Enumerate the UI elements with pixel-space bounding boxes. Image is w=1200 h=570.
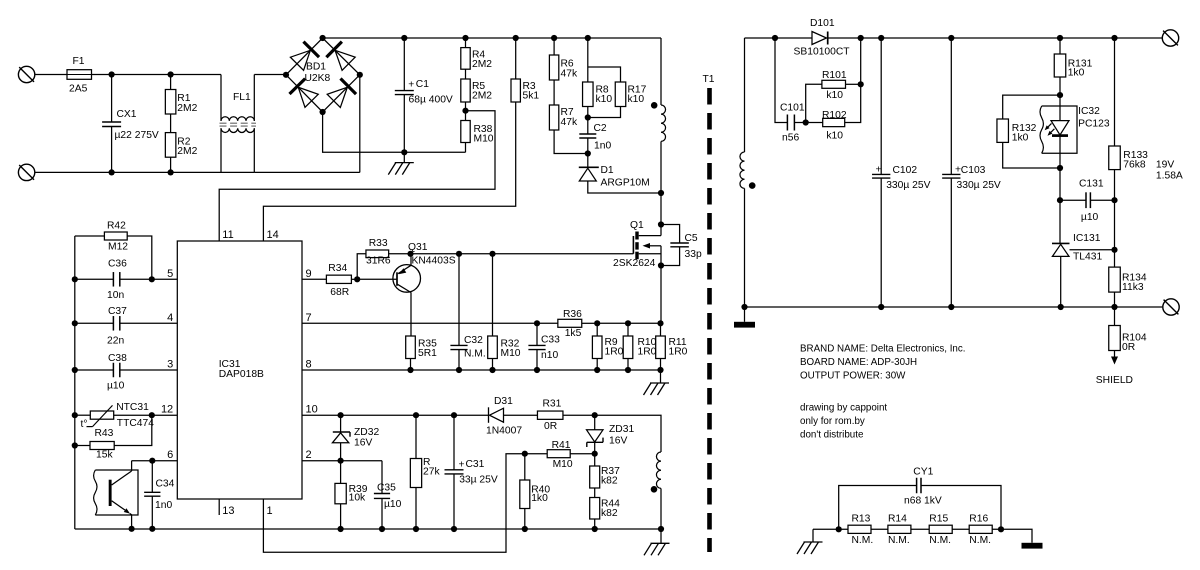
wire (35, 74, 67, 76)
transformer T1 core (707, 88, 712, 552)
svg-text:k10: k10 (596, 94, 613, 105)
svg-text:M10: M10 (553, 459, 573, 470)
gate drive wire (411, 253, 634, 255)
wire (112, 171, 171, 173)
bridge rectifier BD1 U2K8 frame (286, 38, 360, 112)
node R1 top (168, 71, 174, 77)
svg-text:5R1: 5R1 (418, 348, 437, 359)
svg-text:13: 13 (222, 505, 234, 517)
wire (952, 528, 969, 530)
svg-text:2M2: 2M2 (472, 91, 492, 102)
svg-text:1k5: 1k5 (565, 328, 582, 339)
svg-text:47k: 47k (561, 117, 578, 128)
svg-text:D101: D101 (810, 18, 835, 29)
svg-text:N.M.: N.M. (852, 535, 874, 546)
resistor R17 k10 (588, 67, 647, 118)
output terminal + (1162, 30, 1178, 46)
svg-text:7: 7 (306, 312, 312, 324)
svg-text:76k8: 76k8 (1123, 160, 1146, 171)
node C102 bottom (878, 304, 884, 310)
resistor R34 68R (326, 263, 357, 298)
node C31 bottom (451, 526, 457, 532)
svg-text:1k0: 1k0 (1068, 68, 1085, 79)
svg-text:C2: C2 (594, 123, 607, 134)
wire bias top (595, 415, 661, 452)
capacitor C101 n56 (780, 103, 806, 144)
BD1 diode (right-top) (326, 42, 355, 71)
svg-text:C36: C36 (108, 259, 127, 270)
capacitor C103 330u 25V (942, 38, 1001, 307)
resistor R13 N.M. (848, 514, 873, 547)
svg-text:1k0: 1k0 (531, 493, 548, 504)
node Q1 source (658, 262, 664, 268)
node C2/D1 (585, 150, 591, 156)
svg-text:R43: R43 (95, 428, 114, 439)
resistor R3 5k1 (511, 38, 539, 102)
svg-text:16V: 16V (354, 438, 372, 449)
svg-text:ZD31: ZD31 (609, 424, 634, 435)
svg-text:µ10: µ10 (107, 381, 125, 392)
svg-text:27k: 27k (423, 467, 440, 478)
common-mode choke FL1 label (233, 92, 251, 103)
output rating label (1156, 160, 1183, 182)
zener ZD32 16V (332, 415, 379, 461)
node R34/R33 junction (354, 276, 360, 282)
svg-text:6: 6 (167, 449, 173, 461)
svg-text:C37: C37 (108, 306, 127, 317)
IC32 LED (1045, 95, 1069, 168)
node R32 bottom (489, 367, 495, 373)
optocoupler IC32 phototransistor box (94, 470, 138, 515)
wire pin 7 cont (597, 322, 660, 324)
node Q1 drain (658, 221, 664, 227)
resistor R16 N.M. (969, 514, 992, 547)
node CX1 top (109, 71, 115, 77)
node REF/R134 (1111, 247, 1117, 253)
resistor R42 M12 (75, 221, 152, 280)
svg-text:drawing by cappoint: drawing by cappoint (800, 403, 887, 414)
FL1 bottom winding (221, 128, 254, 172)
svg-text:n56: n56 (782, 133, 799, 144)
svg-text:R14: R14 (888, 514, 907, 525)
svg-text:TTC474: TTC474 (117, 418, 154, 429)
svg-text:C131: C131 (1079, 179, 1104, 190)
wire (992, 529, 1032, 543)
node R8/C2 (585, 114, 591, 120)
SHIELD label (1096, 375, 1133, 386)
svg-text:k82: k82 (601, 476, 618, 487)
resistor R8 k10 (583, 38, 613, 118)
svg-text:1n0: 1n0 (155, 500, 172, 511)
svg-text:R31: R31 (543, 399, 562, 410)
node D101 cathode bus (858, 35, 864, 41)
resistor R32 M10 (488, 254, 521, 370)
node C131 right (1111, 197, 1117, 203)
IC32 phototransistor (109, 461, 132, 529)
node R5/R38 (462, 108, 468, 114)
svg-text:R102: R102 (822, 110, 847, 121)
node bias/rail (658, 526, 664, 532)
wire to pin 11 (219, 111, 495, 241)
node R101 right (858, 81, 864, 87)
diode D101 SB10100CT (794, 18, 861, 58)
resistor R41 M10 (525, 440, 595, 470)
pin 8 label (306, 359, 312, 371)
svg-text:TL431: TL431 (1073, 252, 1102, 263)
pin 10 label (306, 404, 318, 416)
capacitor C37 22n (75, 306, 178, 346)
T1 primary winding (661, 38, 666, 225)
FL1 core (220, 123, 257, 126)
svg-text:k82: k82 (601, 508, 618, 519)
node C34/rail (149, 526, 155, 532)
node R39 bottom (338, 526, 344, 532)
svg-text:µ10: µ10 (1081, 212, 1099, 223)
capacitor CY1 n68 1kV (839, 467, 1001, 530)
svg-text:1R0: 1R0 (669, 346, 688, 357)
svg-text:1: 1 (267, 505, 273, 517)
T1 bias phase dot (651, 486, 658, 493)
resistor R4 2M2 (461, 38, 493, 70)
resistor R5 2M2 (461, 69, 493, 111)
wire (112, 74, 171, 76)
pin 1 label (267, 505, 273, 517)
resistor R102 k10 (806, 38, 861, 142)
pin 4 label (167, 312, 173, 324)
node R131 top (1057, 35, 1063, 41)
svg-text:22n: 22n (107, 335, 124, 346)
node R4 top (462, 35, 468, 41)
svg-text:10n: 10n (107, 290, 124, 301)
svg-text:1R0: 1R0 (605, 346, 624, 357)
resistor R1 2M2 (165, 75, 197, 115)
resistor R101 k10 (806, 70, 861, 123)
resistor R6 47k (549, 38, 578, 80)
node R 27k bottom (413, 526, 419, 532)
T1 primary phase dot (651, 102, 658, 109)
resistor R11 1R0 (656, 323, 688, 370)
svg-text:R16: R16 (969, 514, 988, 525)
svg-text:SB10100CT: SB10100CT (794, 47, 851, 58)
node R131/R132 (1057, 92, 1063, 98)
node D101 anode (772, 35, 778, 41)
pin 12 label (161, 404, 173, 416)
resistor R9 1R0 (592, 323, 623, 370)
node C1 top (401, 35, 407, 41)
svg-text:N.M.: N.M. (929, 535, 951, 546)
node ZD31/R41/R37 (592, 451, 598, 457)
node R40 top (522, 451, 528, 457)
capacitor CX1 u22 275V (102, 75, 159, 173)
resistor R44 k82 (590, 488, 620, 529)
svg-text:n10: n10 (541, 350, 558, 361)
resistor R43 15k (75, 415, 152, 460)
svg-text:n68 1kV: n68 1kV (904, 496, 942, 507)
wire secondary bus (745, 37, 813, 39)
svg-text:N.M.: N.M. (969, 535, 991, 546)
svg-text:R34: R34 (328, 263, 347, 274)
svg-text:R41: R41 (552, 440, 571, 451)
svg-text:C32: C32 (464, 335, 483, 346)
svg-text:0R: 0R (544, 421, 557, 432)
node CY1 left (836, 526, 842, 532)
svg-text:NTC31: NTC31 (116, 402, 149, 413)
svg-text:D1: D1 (601, 165, 614, 176)
resistor R 27k (410, 415, 440, 529)
svg-text:1.58A: 1.58A (1156, 171, 1183, 182)
pin 14 label (267, 229, 279, 241)
FL1 top winding (221, 75, 254, 121)
resistor R39 10k (335, 461, 368, 529)
node C103 bottom (948, 304, 954, 310)
svg-text:C33: C33 (541, 335, 560, 346)
T1 bias winding (656, 452, 661, 529)
svg-text:R101: R101 (822, 70, 847, 81)
resistor R15 N.M. (929, 514, 952, 547)
capacitor C5 33p (661, 225, 702, 266)
node R133 top (1111, 35, 1117, 41)
ground (primary, sense rail) (644, 370, 670, 395)
wire pin 2 (302, 460, 382, 462)
wire base (357, 278, 397, 280)
svg-text:11: 11 (222, 229, 233, 241)
node R9 bottom (594, 367, 600, 373)
resistor R33 31R6 (357, 238, 410, 279)
ground (secondary, CY1) (1022, 543, 1043, 549)
op-amp IC31 DAP018B box (177, 241, 302, 499)
capacitor C38 u10 (75, 353, 178, 392)
resistor R132 1k0 (997, 95, 1060, 168)
wire to pin 14 (263, 102, 515, 241)
svg-text:IC32: IC32 (1078, 106, 1100, 117)
svg-text:9: 9 (306, 268, 312, 280)
svg-text:CX1: CX1 (117, 109, 137, 120)
wire (871, 528, 888, 530)
node C32 bottom (456, 367, 462, 373)
resistor R40 1k0 (520, 454, 551, 529)
node C101/R101 (803, 119, 809, 125)
TL431 ref wire (1070, 249, 1115, 251)
resistor R10 1R0 (623, 323, 656, 370)
wire secondary rail (745, 306, 1163, 308)
capacitor C35 u10 (374, 461, 402, 529)
node R35 bottom (407, 367, 413, 373)
node R3 top (513, 35, 519, 41)
svg-text:1R0: 1R0 (638, 346, 657, 357)
svg-text:don't distribute: don't distribute (800, 430, 864, 441)
node C37 left (72, 320, 78, 326)
svg-text:µ10: µ10 (384, 499, 402, 510)
node NTC right (149, 412, 155, 418)
node C102 top (878, 35, 884, 41)
pin 13 stub (219, 499, 234, 517)
BD1 diode (bottom-right) (327, 79, 356, 108)
diode D31 1N4007 (486, 396, 538, 437)
svg-text:C101: C101 (780, 103, 805, 114)
resistor R131 1k0 (1054, 38, 1092, 95)
capacitor C36 10n (75, 259, 178, 302)
ground (primary, bias) (644, 529, 670, 555)
capacitor C33 n10 (528, 323, 560, 370)
resistor R35 5R1 (406, 293, 437, 370)
svg-text:+: + (876, 165, 882, 176)
svg-text:N.M.: N.M. (464, 349, 486, 360)
svg-text:2M2: 2M2 (177, 146, 197, 157)
node CX1 bottom (109, 169, 115, 175)
svg-text:N.M.: N.M. (888, 535, 910, 546)
resistor R134 11k3 (1109, 267, 1147, 307)
svg-text:ZD32: ZD32 (354, 427, 379, 438)
wire (92, 74, 112, 76)
resistor R31 0R (537, 399, 594, 432)
svg-text:T1: T1 (703, 74, 715, 85)
node C38 left (72, 367, 78, 373)
svg-text:t°: t° (81, 419, 88, 430)
resistor R14 N.M. (888, 514, 911, 547)
svg-text:5k1: 5k1 (523, 91, 540, 102)
credits text (800, 403, 887, 441)
svg-text:5: 5 (167, 268, 173, 280)
svg-text:4: 4 (167, 312, 173, 324)
node R10 top (625, 320, 631, 326)
svg-text:2SK2624: 2SK2624 (613, 258, 656, 269)
wire (171, 74, 221, 76)
node secondary rail left (741, 304, 747, 310)
wire Q1 source down (660, 266, 662, 324)
svg-text:15k: 15k (96, 449, 113, 460)
resistor R37 k82 (590, 454, 620, 488)
wire pin 8 (302, 369, 661, 371)
resistor R38 M10 (461, 111, 494, 153)
wire (254, 74, 286, 76)
shield arrow (1111, 351, 1118, 365)
pin 7 label (306, 312, 312, 324)
svg-text:OUTPUT POWER: 30W: OUTPUT POWER: 30W (800, 371, 906, 382)
svg-text:BRAND NAME: Delta Electronics,: BRAND NAME: Delta Electronics, Inc. (800, 344, 966, 355)
resistor R104 0R (1109, 307, 1147, 353)
BD1 diode (left-top) (290, 42, 319, 71)
node ZD32 top (338, 412, 344, 418)
transformer T1 label (703, 74, 715, 85)
svg-text:R15: R15 (929, 514, 948, 525)
mosfet Q1 2SK2624 (613, 220, 661, 269)
svg-text:330µ 25V: 330µ 25V (886, 180, 930, 191)
svg-text:k10: k10 (826, 90, 843, 101)
node R40 bottom (522, 526, 528, 532)
node R31/ZD31 (592, 412, 598, 418)
svg-text:2: 2 (306, 449, 312, 461)
node C35 bottom (379, 526, 385, 532)
node BD1 bottom (320, 109, 326, 115)
svg-text:68R: 68R (330, 287, 349, 298)
node CY1 right (998, 526, 1004, 532)
svg-text:19V: 19V (1156, 160, 1174, 171)
svg-text:C103: C103 (961, 165, 986, 176)
node LED cathode (1057, 165, 1063, 171)
wire (171, 171, 255, 173)
optocoupler IC32 LED box (1040, 106, 1110, 153)
svg-text:330µ 25V: 330µ 25V (957, 180, 1001, 191)
svg-text:F1: F1 (73, 56, 85, 67)
node C36 left (72, 276, 78, 282)
node BD1 top (320, 35, 326, 41)
svg-text:R42: R42 (107, 221, 126, 232)
BD1 diode (bottom-left) (290, 79, 319, 108)
wire (1114, 200, 1116, 267)
node R44 bottom (592, 526, 598, 532)
shunt regulator IC131 TL431 (1052, 233, 1102, 307)
node C1 bottom (401, 149, 407, 155)
svg-text:14: 14 (267, 229, 279, 241)
zener ZD31 16V (587, 415, 635, 454)
node R8 top bus (585, 35, 591, 41)
resistor R36 1k5 (558, 309, 597, 339)
node BD1 right (357, 72, 363, 78)
pin 9 label (306, 268, 312, 280)
svg-text:k10: k10 (826, 131, 843, 142)
resistor R2 2M2 (165, 114, 197, 172)
svg-text:C102: C102 (893, 165, 918, 176)
capacitor C1 68u 400V (395, 38, 453, 152)
ground (secondary) (734, 307, 755, 328)
node R2 bottom (168, 169, 174, 175)
input terminal J2 (neutral) (18, 164, 34, 180)
svg-text:2A5: 2A5 (69, 84, 88, 95)
output terminal - (1163, 299, 1179, 315)
node R134 bottom (1111, 304, 1117, 310)
svg-text:µ22 275V: µ22 275V (115, 130, 159, 141)
wire (554, 130, 588, 154)
svg-text:8: 8 (306, 359, 312, 371)
capacitor C102 330u 25V (872, 38, 931, 307)
wire BD1 minus (323, 112, 466, 152)
svg-text:C1: C1 (416, 79, 429, 90)
svg-text:16V: 16V (609, 435, 627, 446)
svg-text:33p: 33p (685, 249, 702, 260)
node R43 left (72, 442, 78, 448)
pin 3 label (167, 359, 173, 371)
svg-text:10k: 10k (349, 493, 366, 504)
wire pin 12 (152, 414, 178, 416)
svg-text:1n0: 1n0 (594, 141, 611, 152)
svg-text:68µ 400V: 68µ 400V (409, 95, 453, 106)
svg-text:1k0: 1k0 (1012, 133, 1029, 144)
node Q31 emitter top (407, 251, 413, 257)
svg-text:0R: 0R (1122, 342, 1135, 353)
node R11 bottom (657, 367, 663, 373)
svg-text:Q1: Q1 (630, 220, 644, 231)
ground (primary, C1) (388, 152, 414, 174)
node C32 top (456, 251, 462, 257)
node Q1 source / R11 top (657, 320, 663, 326)
node ZD32 anode (338, 458, 344, 464)
svg-text:D31: D31 (494, 396, 513, 407)
svg-text:33µ 25V: 33µ 25V (459, 475, 498, 486)
svg-text:R33: R33 (369, 238, 388, 249)
diode D1 ARGP10M (579, 154, 661, 194)
thermistor NTC31 TTC474 (75, 402, 154, 430)
svg-text:IC131: IC131 (1073, 233, 1101, 244)
node TL431 anode rail (1058, 304, 1064, 310)
node C103 top (948, 35, 954, 41)
resistor R133 76k8 (1109, 38, 1148, 200)
transistor Q31 KN4403S (393, 242, 456, 293)
svg-text:+: + (408, 80, 414, 91)
wire pin 10 (302, 414, 488, 416)
node C33 bottom (534, 367, 540, 373)
snubber branch wire (775, 38, 787, 123)
svg-text:BD1: BD1 (306, 62, 326, 73)
